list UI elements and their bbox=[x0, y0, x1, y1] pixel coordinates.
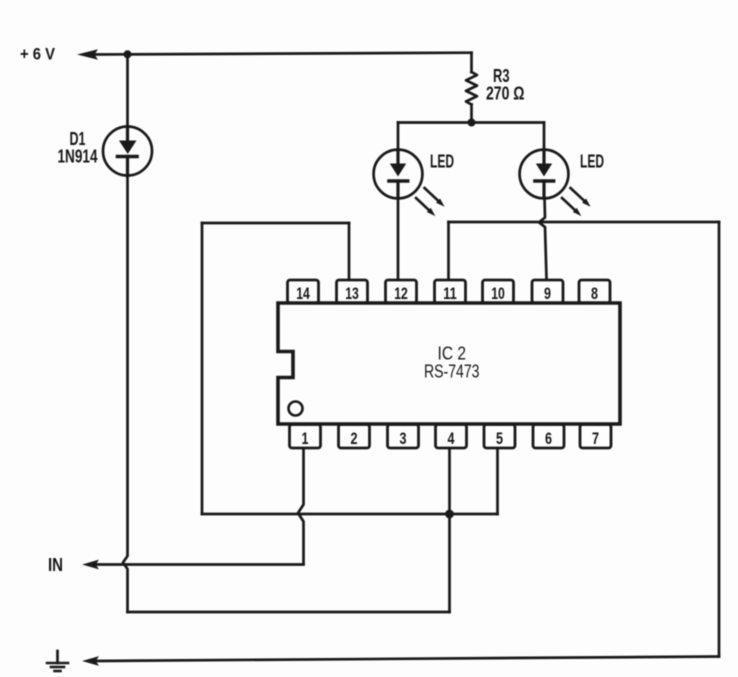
wire left loop top bbox=[202, 222, 349, 225]
node junction dot at D1 tap bbox=[124, 50, 132, 58]
svg-text:RS-7473: RS-7473 bbox=[424, 361, 480, 382]
pin 11 bbox=[435, 280, 466, 303]
svg-text:7: 7 bbox=[592, 429, 599, 448]
svg-text:LED: LED bbox=[580, 152, 604, 172]
wire D1 bottom lead down to bottom bus (jog over IN line) bbox=[123, 175, 128, 612]
svg-text:+ 6 V: + 6 V bbox=[20, 45, 56, 64]
pin 10 bbox=[483, 280, 514, 303]
label LED (right) bbox=[580, 152, 604, 172]
wire IN arrow bbox=[82, 560, 99, 570]
label IC 2 bbox=[438, 343, 467, 364]
resistor R3 bbox=[466, 53, 477, 123]
node junction pin4 and feedback bbox=[445, 510, 454, 519]
label R3 bbox=[493, 66, 510, 86]
pin 9 bbox=[532, 280, 563, 303]
pin 4 bbox=[436, 425, 467, 449]
svg-text:5: 5 bbox=[496, 429, 503, 448]
svg-text:12: 12 bbox=[394, 284, 408, 303]
wire +6V rail arrow bbox=[77, 49, 98, 60]
wire +6V top rail bbox=[93, 53, 472, 55]
pin 2 bbox=[339, 425, 370, 449]
IC IC2 body (RS-7473 DIP-14, notch and pin-1 dot) bbox=[278, 303, 620, 424]
wire feedback line to left loop bbox=[202, 513, 498, 516]
pin 5 bbox=[484, 425, 515, 449]
label D1 bbox=[70, 129, 86, 149]
svg-text:8: 8 bbox=[591, 284, 598, 303]
wire LED feed rail bbox=[398, 121, 544, 124]
label IN bbox=[48, 555, 63, 575]
wire LED2 cathode to pin 9 (jog over right rail) bbox=[539, 198, 547, 280]
wire LED2 top lead bbox=[543, 123, 546, 151]
node +6V label bbox=[20, 45, 56, 64]
pin 12 bbox=[386, 280, 417, 303]
ground bbox=[47, 651, 68, 671]
pin 8 bbox=[579, 280, 610, 303]
diode D1 bbox=[103, 127, 152, 176]
svg-text:13: 13 bbox=[345, 284, 359, 303]
label 1N914 bbox=[58, 147, 98, 167]
wire pin 11 lead bbox=[447, 222, 450, 279]
pin 6 bbox=[533, 425, 564, 449]
svg-text:LED: LED bbox=[430, 152, 454, 172]
wire pin 5 lead bbox=[496, 449, 499, 515]
node junction dot R3 to LED rail bbox=[468, 119, 476, 127]
pin 7 bbox=[580, 425, 611, 449]
LED LED2 (right) with light-ray arrows bbox=[520, 150, 593, 219]
svg-text:2: 2 bbox=[351, 429, 358, 448]
svg-text:4: 4 bbox=[448, 429, 455, 448]
svg-text:10: 10 bbox=[491, 284, 505, 303]
wire IN line bbox=[95, 563, 304, 566]
LED LED1 (left) with light-ray arrows bbox=[374, 150, 447, 219]
pin 13 bbox=[337, 280, 368, 303]
wire right rail from pin 11 to right frame bbox=[449, 221, 720, 224]
svg-text:1N914: 1N914 bbox=[58, 147, 98, 167]
wire LED1 cathode to pin 12 bbox=[397, 198, 400, 280]
svg-text:1: 1 bbox=[302, 429, 309, 448]
pin 3 bbox=[388, 425, 419, 449]
wire D1 top lead bbox=[126, 54, 129, 127]
wire bottom bus bbox=[128, 611, 450, 614]
wire pin 4 lead down to bottom bus bbox=[448, 449, 451, 613]
svg-text:IN: IN bbox=[48, 555, 63, 575]
label 270 ohm bbox=[486, 84, 525, 104]
pin 1 bbox=[290, 425, 321, 449]
svg-text:9: 9 bbox=[544, 284, 551, 303]
wire ground arrow bbox=[82, 656, 99, 666]
wire pin 1 lead down to IN (jog over feedback line) bbox=[298, 449, 304, 565]
wire ground line bbox=[95, 657, 719, 662]
wire left loop vertical bbox=[201, 223, 204, 514]
label RS-7473 bbox=[424, 361, 480, 382]
label LED (left) bbox=[430, 152, 454, 172]
wire right frame vertical bbox=[718, 222, 721, 657]
svg-text:3: 3 bbox=[400, 429, 407, 448]
svg-text:270 Ω: 270 Ω bbox=[486, 84, 525, 104]
svg-text:14: 14 bbox=[296, 284, 310, 303]
wire LED1 top lead bbox=[397, 123, 400, 151]
pin 14 bbox=[288, 280, 319, 303]
wire pin 13 lead bbox=[348, 223, 351, 279]
svg-text:11: 11 bbox=[443, 284, 457, 303]
svg-text:6: 6 bbox=[545, 429, 552, 448]
